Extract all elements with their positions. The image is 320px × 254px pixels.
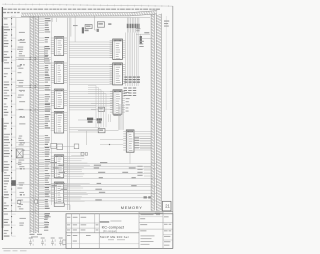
wires left mid rows (16, 143, 30, 159)
pins of U6 (51, 183, 67, 201)
bus data bus left (hatched) (35, 16, 39, 233)
wire below D7 (129, 152, 131, 163)
junction box X2 (81, 152, 84, 155)
wires D7 to right buses (134, 132, 151, 150)
wire top right net (136, 34, 151, 38)
gate IC D2 (97, 22, 105, 32)
wire drops below D5 (109, 114, 111, 122)
release note text rows bottom right (141, 236, 171, 246)
wire bundle lower control lines (16, 164, 156, 201)
resistor R3 (82, 27, 89, 33)
junction box X3 (85, 153, 87, 156)
horizontal separator line (2, 211, 172, 213)
pins of U5 (51, 156, 67, 176)
manufacturer caption (100, 221, 109, 222)
wire R network links (42, 147, 84, 156)
diode V1 (17, 201, 21, 204)
capacitor C3 (29, 238, 33, 246)
relay K2 (11, 180, 16, 186)
capacitor C5 (51, 238, 55, 246)
wire bundle into D7 (119, 104, 124, 130)
svg-text:KC-compact: KC-compact (102, 225, 125, 230)
wire V1-V2 (21, 201, 35, 203)
wire vertical rail B right of RAM column (68, 18, 70, 210)
drawing number underline marks (108, 239, 125, 242)
net labels cluster below D4 (124, 77, 140, 97)
junction node (109, 144, 110, 145)
wire Q stage link (93, 119, 96, 121)
RAM IC U6 (54, 182, 63, 204)
connector X1 edge labels column (4, 16, 16, 237)
wire G1 net (78, 131, 119, 145)
crystal G1 (98, 129, 105, 133)
RAM IC U2 (54, 62, 63, 84)
net labels bottom left block (44, 214, 51, 231)
wire taps from left buses with net labels (39, 18, 51, 228)
pins of U2 (51, 63, 67, 83)
bottom annotation text (4, 250, 27, 251)
wire bundle U2 to D4 address lines (69, 65, 113, 85)
RAM IC U3 (54, 89, 63, 109)
pins of U3 (51, 90, 67, 105)
pins of U4 (51, 113, 67, 131)
pins of D7 (123, 132, 126, 150)
pins of D5 (110, 91, 125, 112)
sheet number box 21 (162, 201, 171, 211)
border frame bottom (2, 247, 173, 249)
net labels right of D5 (126, 92, 130, 112)
capacitor C2 top right (140, 36, 142, 44)
title block outline (66, 214, 173, 249)
multiplexer IC D3 (113, 39, 123, 59)
svg-text:5HCP ME 300 bel: 5HCP ME 300 bel (100, 235, 129, 239)
net labels top right (136, 28, 149, 47)
wire into D7 pin row A (100, 139, 123, 141)
label under D5 (113, 115, 120, 116)
transistor Q1 (87, 118, 93, 123)
RAM IC U1 (54, 37, 63, 56)
pins of D4 (110, 64, 126, 83)
frame grid letters (20, 39, 25, 196)
wire into D7 pin row B (100, 144, 123, 146)
bus data bus right (hatched) (156, 14, 161, 211)
inter-bank select wires (16, 57, 51, 111)
title block vertical dividers (72, 212, 163, 249)
RAM IC U5 (54, 155, 63, 178)
wire drop from top bus to U1 (70, 18, 72, 37)
top signal labels row 1 (3, 9, 160, 10)
resistor R1 (51, 143, 57, 148)
labels left of sheet box (155, 213, 160, 216)
wire bundle U4 lower outputs (69, 128, 100, 132)
capacitor C4 (41, 238, 45, 246)
wires into D6 (91, 104, 113, 110)
driver IC D8 (54, 203, 70, 210)
pins of D3 (110, 41, 126, 58)
logic IC D5 (113, 90, 122, 114)
title block horizontal dividers left (66, 223, 139, 244)
svg-text:21: 21 (165, 204, 170, 209)
right inner frame line (165, 16, 167, 110)
bus address bus left (hatched) (30, 16, 33, 233)
wire drop to D2 (95, 16, 98, 30)
wire taps into right bus (mid) (134, 137, 151, 176)
bus termination labels (30, 234, 43, 238)
wire bundle U3 lower outputs (69, 106, 96, 110)
wire stub vertical joint (43, 46, 45, 63)
wire vertical rail A right of RAM column (67, 18, 69, 210)
title block right box lines (139, 213, 173, 240)
connector pin rail (11, 16, 12, 236)
diode V2 (34, 200, 37, 203)
top signal labels row 2 (3, 12, 20, 13)
wire vertical feeder rail left of RAM column (51, 18, 53, 205)
left inner frame line (15, 18, 17, 212)
wire Q1 base (78, 119, 87, 121)
bus horizontal address/data bus along top (21, 11, 157, 17)
gate IC D1 (85, 25, 92, 29)
net tags near right bus lower (144, 196, 151, 198)
wire staircase into D7 bundle (88, 86, 106, 128)
pins of U1 (51, 38, 67, 53)
bus address bus right (hatched) (151, 14, 154, 211)
manufacturer caption right part (110, 220, 121, 223)
title block small field labels (67, 214, 171, 241)
capacitor C1 (74, 144, 79, 149)
wire extensions from U6 output pins (67, 184, 90, 202)
wire drop stubs from top rail (52, 18, 77, 27)
multiplexer IC D4 (113, 63, 123, 85)
pins of RN1 (127, 18, 139, 33)
gate array IC D7 (126, 130, 134, 152)
voltage regulator N1 (63, 240, 66, 245)
left page edge line (1, 7, 3, 240)
connector K1 (16, 149, 23, 158)
capacitor C6 (59, 238, 63, 246)
wire bundle U1 to D3 address lines (69, 42, 113, 57)
resistor network RN1 (127, 24, 140, 29)
logic IC D6 (98, 107, 104, 111)
resistor R2 (57, 144, 63, 150)
revision tag top right (164, 21, 169, 27)
net labels on lower control lines (50, 162, 136, 200)
RAM IC U4 (54, 111, 63, 133)
wire extensions from U5 output pins (67, 156, 90, 176)
wire bundle address mux verticals (126, 33, 139, 87)
net name labels left of bus (17, 32, 26, 226)
border frame top (2, 3, 173, 7)
svg-text:MEMORY: MEMORY (121, 205, 143, 210)
border frame right (172, 6, 174, 248)
transistor Q2 (97, 118, 102, 123)
wire bundle U3 to D5 lines (69, 92, 113, 106)
net label right of D2 (108, 23, 111, 25)
wire top rail under bus (2, 17, 150, 19)
wire drop top centre-left (74, 16, 76, 42)
svg-text:(KC compact): (KC compact) (103, 230, 117, 233)
